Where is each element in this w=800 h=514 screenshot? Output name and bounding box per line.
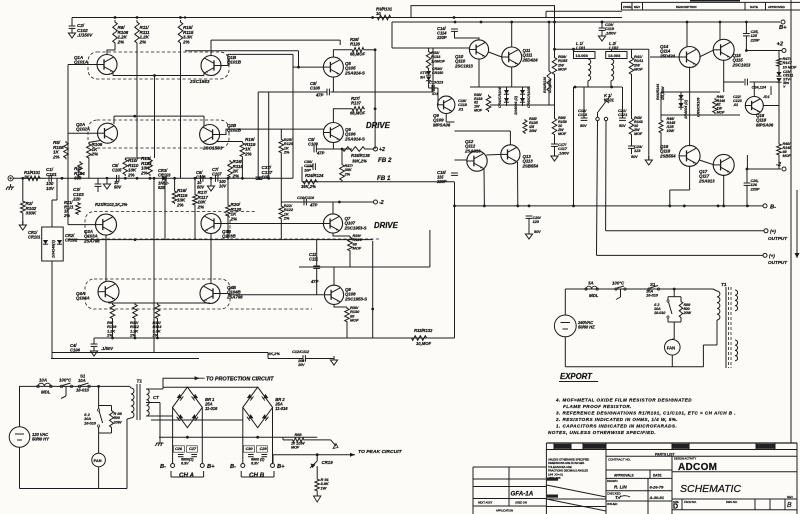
svg-text:330K: 330K xyxy=(26,211,37,216)
label C8 value xyxy=(315,93,324,98)
label 10A fuse xyxy=(39,378,47,383)
label Q7/Q107 xyxy=(344,216,367,230)
wire bracket top xyxy=(411,6,555,22)
switch S1 xyxy=(78,383,90,388)
svg-text:TOLERANCES ARE:: TOLERANCES ARE: xyxy=(548,465,572,469)
svg-text:2SA913: 2SA913 xyxy=(464,148,481,153)
label R27 value xyxy=(350,111,365,116)
svg-text:6-26-79: 6-26-79 xyxy=(650,485,665,490)
label 1N52-62B xyxy=(158,181,169,190)
resistor R9/R109 xyxy=(110,303,115,320)
label Q1B/Q101B xyxy=(227,55,242,65)
label CR5/CR105 xyxy=(527,87,531,108)
capacitor C30 chB xyxy=(248,455,254,457)
junction after C1 xyxy=(61,177,64,180)
transistor Q7 xyxy=(323,214,342,233)
wire L2 coil bottom xyxy=(610,81,612,87)
svg-text:B+: B+ xyxy=(779,25,787,31)
wire Q10 base feed xyxy=(392,47,469,49)
svg-text:MPSA06: MPSA06 xyxy=(433,122,451,127)
diode CR5 a xyxy=(520,90,525,94)
label Q11/Q111 xyxy=(522,48,539,62)
label C3/C103 220 xyxy=(72,187,84,202)
resistor R25/R125 xyxy=(279,138,284,154)
resistor R22/R122 xyxy=(279,205,284,220)
svg-text:APPROVED: APPROVED xyxy=(768,5,786,9)
label Q8/Q108 xyxy=(344,287,367,301)
transformer T1 export primary xyxy=(717,291,720,320)
transistor Q18 xyxy=(745,97,763,115)
label 6800 chB xyxy=(251,458,265,466)
label 50V C23 xyxy=(631,155,638,159)
dual package Q1A/Q1B outline xyxy=(88,52,229,79)
svg-text:/25,10W: /25,10W xyxy=(661,86,665,101)
wire t1 pri top xyxy=(130,386,131,388)
resistor R2/R102 xyxy=(21,200,26,214)
label 50V C20 xyxy=(534,230,541,234)
label CT xyxy=(153,395,159,400)
wire Q4A emitter stub xyxy=(108,301,110,304)
diode CR right a xyxy=(678,95,683,99)
label 2SC1583 (Q2) xyxy=(202,146,223,151)
wire C19 stub2 xyxy=(601,30,603,36)
svg-text:TO PEAK CIRCUIT: TO PEAK CIRCUIT xyxy=(358,449,403,455)
svg-text:2SC1953-S: 2SC1953-S xyxy=(344,296,367,301)
wire R10/R13 tops xyxy=(125,157,150,159)
wire C9 left xyxy=(326,148,333,150)
junction x150 xyxy=(149,177,152,180)
svg-text:3. REFERENCE DESIGNATIONS R1: 3. REFERENCE DESIGNATIONS R1/R101, C1/C1… xyxy=(556,411,736,416)
wire export left xyxy=(564,289,566,315)
revision table xyxy=(622,1,800,10)
svg-text:3H: 3H xyxy=(420,76,425,80)
label Q5/Q105 xyxy=(344,61,365,75)
svg-text:NOTES, UNLESS OTHERWISE SPECIF: NOTES, UNLESS OTHERWISE SPECIFIED. xyxy=(548,430,656,435)
svg-text:REV: REV xyxy=(634,5,640,9)
svg-text:Q102A: Q102A xyxy=(76,127,90,132)
wire peak row xyxy=(273,454,355,456)
label B+ xyxy=(779,25,787,31)
label C15/C115 220P xyxy=(436,170,447,184)
wire fb2 row xyxy=(316,148,352,150)
wire Q13 down xyxy=(517,162,519,206)
wire L1 box top xyxy=(573,49,575,51)
svg-text:CT: CT xyxy=(153,395,159,400)
wire x154 tail down xyxy=(154,116,156,158)
label R30/R130 xyxy=(350,305,360,323)
svg-text:FLAME PROOF RESISTOR.: FLAME PROOF RESISTOR. xyxy=(563,404,632,409)
svg-text:50V: 50V xyxy=(580,124,587,128)
svg-text:C13/113: C13/113 xyxy=(429,80,444,85)
wire C24 row right xyxy=(750,81,780,83)
junction R14 x338 xyxy=(156,337,159,340)
svg-text:R38/R138: R38/R138 xyxy=(351,153,370,158)
svg-text:B+: B+ xyxy=(277,464,285,470)
label L2/L102 xyxy=(609,41,619,50)
capacitor C14/C114 xyxy=(451,29,458,31)
label R15/R115 xyxy=(182,25,194,44)
wire C19 stub xyxy=(601,22,603,28)
wire x648 vert xyxy=(648,49,650,160)
junction input node xyxy=(21,177,24,180)
transformer T1 secondary xyxy=(147,389,150,416)
label R41/R141 xyxy=(633,54,644,72)
svg-text:CH B: CH B xyxy=(249,472,265,479)
wire fan top xyxy=(98,452,100,453)
svg-text:2SA914-S: 2SA914-S xyxy=(344,70,365,75)
svg-text:ISSUED: ISSUED xyxy=(607,502,617,506)
label C6/C106 xyxy=(196,170,206,179)
label -2 drive xyxy=(379,200,384,206)
junction y437 a xyxy=(186,436,189,439)
junction rail A 372 xyxy=(371,16,374,19)
label BR2 xyxy=(274,397,288,411)
resistor R5/R105 xyxy=(64,141,69,159)
svg-text:C101: C101 xyxy=(46,172,57,177)
wire x584 top xyxy=(583,87,585,118)
svg-text:2%: 2% xyxy=(176,202,183,207)
svg-text:2SC1913: 2SC1913 xyxy=(732,62,751,67)
label Q3B/Q103B xyxy=(222,229,236,239)
svg-text:C12/C112: C12/C112 xyxy=(292,349,310,354)
junction R11 top xyxy=(136,16,139,19)
wire CR right col xyxy=(680,92,682,110)
wire x747 top xyxy=(746,155,748,169)
wire Q1B base to right xyxy=(221,54,293,65)
junction collector bus xyxy=(133,115,136,118)
capacitor C4/C104 xyxy=(91,344,98,346)
diode CR150 xyxy=(426,77,431,81)
junction B- 718 xyxy=(717,205,720,208)
wire x779 mid xyxy=(778,82,780,143)
label 1N4004(2) xyxy=(514,95,518,115)
junction R12 x338 xyxy=(134,337,137,340)
label R10/R110 xyxy=(127,158,139,177)
resistor R35/R135 xyxy=(523,119,527,134)
wire Q1A base xyxy=(68,64,97,66)
svg-text:1/64 .XX=.01: 1/64 .XX=.01 xyxy=(548,472,564,476)
svg-text:100°C: 100°C xyxy=(612,281,625,286)
wire relay b down xyxy=(605,121,607,231)
wire vertical x375 xyxy=(374,50,376,149)
capacitor C9/C109 xyxy=(314,146,316,153)
svg-text:39K,2%: 39K,2% xyxy=(301,184,316,189)
svg-text:DESCRIPTION: DESCRIPTION xyxy=(676,5,697,9)
wire R12 bottom xyxy=(134,320,136,338)
wire R14 bottom xyxy=(157,320,159,338)
terminal +2 (fb2) xyxy=(374,147,378,151)
wire ct down xyxy=(159,403,161,441)
wire Q1 emitter bus xyxy=(113,72,204,76)
svg-text:SCHEMATIC: SCHEMATIC xyxy=(680,483,741,495)
capacitor C3/C103 xyxy=(95,184,102,186)
wire export right link xyxy=(703,344,717,346)
wire CR4 col xyxy=(506,87,508,106)
ground stub C6 xyxy=(210,178,212,182)
wire R33 top xyxy=(428,48,430,50)
junction x554 railB xyxy=(553,21,556,24)
svg-text:120: 120 xyxy=(533,219,540,224)
thermal switch 100C xyxy=(60,383,73,399)
svg-text:6.3V: 6.3V xyxy=(251,462,259,466)
svg-text:2%: 2% xyxy=(197,204,204,209)
label CR2/CR102 xyxy=(65,233,78,242)
junction rail B 511 xyxy=(510,21,513,24)
label S2 export xyxy=(654,303,666,315)
terminal B+ chB xyxy=(271,464,275,468)
junction x211 xyxy=(210,177,213,180)
label C29 xyxy=(260,446,268,451)
wire Q10 emitter xyxy=(478,59,480,87)
resistor R32/R132 xyxy=(410,336,428,341)
wire Q5 emitter xyxy=(332,77,334,92)
wire x549 low xyxy=(548,93,550,105)
svg-text:C26: C26 xyxy=(175,446,183,451)
svg-text:2SB554: 2SB554 xyxy=(659,153,676,158)
wire Q8 collector xyxy=(333,267,335,285)
svg-text:18-010: 18-010 xyxy=(76,388,90,393)
junction x165b xyxy=(164,177,167,180)
label Q17/Q117 xyxy=(698,169,715,183)
svg-text:.1/50V: .1/50V xyxy=(605,30,616,35)
svg-text:.1/30V: .1/30V xyxy=(558,150,569,155)
wire fan export top2 xyxy=(671,338,673,341)
label D1 a xyxy=(431,91,438,96)
wire c23 stub xyxy=(631,148,633,154)
svg-text:(=): (=) xyxy=(770,229,776,234)
label MDL xyxy=(41,390,51,395)
diode CR2/CR102 xyxy=(57,240,62,244)
svg-text:MDL: MDL xyxy=(589,293,599,298)
switch S2 export branch xyxy=(667,297,681,339)
label Q13/Q113 xyxy=(522,154,539,168)
inductor L2 coil xyxy=(611,59,614,81)
resistor R38/R138 xyxy=(340,147,367,152)
svg-text:68,MOF: 68,MOF xyxy=(350,52,365,57)
wire x281 upper xyxy=(280,129,282,138)
label C8/C108 xyxy=(310,81,320,90)
svg-text:25D424: 25D424 xyxy=(659,53,676,58)
relay K1/K101 contact xyxy=(598,96,610,112)
junction rail B 687 xyxy=(686,21,689,24)
svg-text:10A: 10A xyxy=(39,378,47,383)
svg-text:+2: +2 xyxy=(379,147,385,153)
label C6 value xyxy=(197,180,205,189)
wire Q2B emitter to R19 xyxy=(217,141,243,143)
junction x372 xyxy=(371,308,374,311)
wire mid vertical x268 xyxy=(268,92,270,178)
svg-text:39K,2%: 39K,2% xyxy=(352,159,367,164)
junction c10 row xyxy=(338,201,341,204)
label DRIVE upper xyxy=(366,121,391,130)
label C19/C119 xyxy=(605,22,616,35)
svg-text:C111: C111 xyxy=(309,256,319,261)
transistor Q3A xyxy=(96,214,117,235)
label C18/C118 relay xyxy=(578,108,588,117)
transistor Q9 xyxy=(438,96,455,113)
resistor R18/R118 xyxy=(228,160,233,178)
resistor R27/R137 xyxy=(351,107,365,112)
junction B- 517 xyxy=(516,205,519,208)
wire base drop x298 xyxy=(298,51,300,67)
wire C26 bottom xyxy=(746,185,748,206)
svg-text:2. RESISTORS INDICATED IN OHM: 2. RESISTORS INDICATED IN OHMS, 1/4 W, 5… xyxy=(555,417,678,422)
svg-text:20W: 20W xyxy=(113,419,123,424)
svg-text:Q103B: Q103B xyxy=(222,234,236,239)
wire x392 drop xyxy=(391,22,393,48)
wire ps left xyxy=(19,386,21,426)
svg-text:A-30-81: A-30-81 xyxy=(649,495,665,500)
wire x549 down xyxy=(548,22,550,69)
label R 62 1W MOF xyxy=(474,93,483,112)
label C30 C29 xyxy=(246,446,254,451)
terminal (-) output xyxy=(764,229,768,233)
label R36/R136 rot xyxy=(543,76,547,93)
wire sec ct tap xyxy=(146,402,160,404)
label Q1A/Q101A xyxy=(74,55,88,65)
label R38/R138 xyxy=(351,153,370,158)
junction rail B 484 xyxy=(480,21,483,24)
wire left vert to Q3 xyxy=(67,178,69,224)
wire c38 row xyxy=(306,166,313,168)
inductor L1 box xyxy=(574,52,596,59)
label S1 export value xyxy=(646,289,659,298)
label S1 export xyxy=(650,282,656,287)
label Q3A/Q103A xyxy=(83,229,100,243)
label STV-3H b xyxy=(420,76,425,80)
terminal B- chA xyxy=(171,464,175,468)
transistor Q3B xyxy=(201,214,221,234)
transistor Q16 xyxy=(679,145,700,166)
svg-text:CR19: CR19 xyxy=(322,460,334,465)
inductor L2 box xyxy=(606,52,627,59)
wire mid rail y437 xyxy=(159,436,317,438)
wire R30 bottom xyxy=(346,323,348,338)
label B+ chB xyxy=(277,464,285,470)
transistor Q4B xyxy=(200,284,220,304)
label 6800 chA xyxy=(181,458,194,466)
wire C20 stub xyxy=(528,218,530,230)
svg-text:50V: 50V xyxy=(114,184,122,189)
label CR149/CR150 xyxy=(432,67,444,75)
label C5 value xyxy=(114,180,122,189)
resistor R46/R146 xyxy=(713,98,718,114)
wire c12 link xyxy=(267,353,269,359)
wire fan bottom xyxy=(98,467,100,489)
wire Q15 top xyxy=(719,22,721,40)
junction y437 b xyxy=(256,436,259,439)
svg-text:10V: 10V xyxy=(298,363,305,367)
label C12/C112 xyxy=(292,349,310,354)
junction rail B 746 xyxy=(745,21,748,24)
wire vertical x165 xyxy=(164,178,166,239)
wire L2 box top xyxy=(611,49,613,51)
svg-text:CR103: CR103 xyxy=(158,172,171,177)
wire Q14 emitter down xyxy=(689,67,691,147)
label R28/R128 xyxy=(350,37,360,46)
svg-text:.01: .01 xyxy=(458,106,464,111)
diode CR STV b xyxy=(776,78,781,82)
wire C26 top xyxy=(746,169,748,183)
wire ps down x98 xyxy=(98,386,100,403)
svg-text:B-: B- xyxy=(230,464,236,470)
resistor R14/R114 xyxy=(155,303,160,320)
wire c13 row b xyxy=(434,87,438,89)
label R46/R146 xyxy=(717,95,726,114)
fuse 3A export xyxy=(585,286,599,290)
wire Q3B base to Q7 xyxy=(221,223,324,225)
junction R37 top xyxy=(341,148,344,151)
wire export top xyxy=(565,288,713,290)
wire x281 mid xyxy=(280,154,282,202)
svg-text:PARTS LIST: PARTS LIST xyxy=(655,452,675,456)
svg-text:2%: 2% xyxy=(230,216,237,221)
wire Q15 emitter row xyxy=(724,81,744,83)
wire R8 to Q1A collector xyxy=(107,45,115,55)
junction x154b xyxy=(153,177,156,180)
wire export right up xyxy=(702,345,704,367)
svg-text:20W: 20W xyxy=(683,311,692,315)
label Q12/Q112 xyxy=(464,139,481,153)
capacitor C23/C123 xyxy=(628,146,635,148)
svg-text:(+): (+) xyxy=(769,254,775,259)
ground below C2 xyxy=(68,29,75,38)
transistor Q10 xyxy=(469,40,488,59)
label C37/C137 10P xyxy=(262,165,273,180)
resistor R10/R110 xyxy=(123,158,128,176)
label 50V C18 xyxy=(580,124,587,128)
label C10/C110 xyxy=(297,195,315,200)
svg-text:C30: C30 xyxy=(246,446,254,451)
svg-text:10A: 10A xyxy=(78,378,86,383)
wire box bottom xyxy=(51,261,53,359)
wire export down xyxy=(673,289,675,297)
label B- chA xyxy=(160,464,166,470)
label R36 value rot xyxy=(548,79,552,94)
label B+ chA xyxy=(207,464,215,470)
label Q4A/Q104A xyxy=(76,291,90,301)
wire BR1 left down xyxy=(172,407,174,463)
terminal -2 (drive) xyxy=(374,200,378,204)
junction x137b xyxy=(136,177,139,180)
label 3A xyxy=(588,281,594,286)
svg-text:C121: C121 xyxy=(618,112,628,117)
label R89 export xyxy=(683,303,692,315)
wire y190 link xyxy=(670,189,690,191)
resistor R89/S2 xyxy=(110,409,114,429)
svg-text:R32/R132: R32/R132 xyxy=(414,328,433,333)
ground after C12 xyxy=(330,356,337,365)
svg-text:DRIVE: DRIVE xyxy=(366,121,391,130)
label R35/R135 xyxy=(528,117,539,133)
wire bridge rail xyxy=(163,386,258,388)
svg-text:123: 123 xyxy=(634,148,641,153)
label C25/C125 220P xyxy=(750,29,760,42)
wire Q18 collector stub xyxy=(753,82,755,97)
svg-text:EXPORT: EXPORT xyxy=(560,372,593,381)
wire R20 top xyxy=(227,178,229,204)
label C9 value xyxy=(316,151,325,156)
junction rail A 454 xyxy=(453,16,456,19)
label C1/C101 xyxy=(46,167,57,177)
svg-text:2%: 2% xyxy=(139,39,146,44)
svg-text:GFA-1A: GFA-1A xyxy=(511,491,534,498)
svg-text:REV: REV xyxy=(787,495,793,499)
wire R33-diode link xyxy=(428,70,430,71)
label D1 q18 xyxy=(763,94,770,99)
label R25/R125 xyxy=(283,137,294,155)
svg-text:DESIGN ACTIVITY: DESIGN ACTIVITY xyxy=(674,457,696,461)
